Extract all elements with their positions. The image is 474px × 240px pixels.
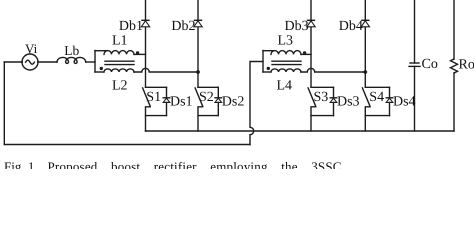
svg-text:S4: S4 [369, 90, 384, 105]
svg-text:Ds2: Ds2 [222, 95, 245, 110]
wire rail L2 to node b with hop over node a [134, 68, 198, 72]
node d vertical (Db4/S4) [364, 0, 366, 87]
polarity dot L3 [303, 51, 306, 54]
polarity dot L1 [136, 51, 139, 54]
node b vertical (Db2/S2) [197, 0, 199, 87]
diode Ds2 [217, 87, 219, 98]
diode Db2 [195, 19, 202, 21]
svg-text:Ds4: Ds4 [393, 95, 416, 110]
svg-text:Ds1: Ds1 [170, 95, 193, 110]
inductor L1 (coupled winding, cell 1) [95, 50, 107, 52]
capacitor Co [414, 0, 416, 63]
junction node d dot [363, 70, 367, 74]
switch S1 [146, 86, 167, 88]
svg-text:Ro: Ro [459, 58, 474, 73]
inductor Lb [57, 57, 86, 63]
svg-text:L2: L2 [112, 78, 128, 93]
core lines T2 [272, 60, 301, 62]
junction node b dot [196, 70, 200, 74]
wire cell2 input riser with hop over output rail [250, 62, 263, 145]
svg-text:L3: L3 [278, 33, 294, 48]
diode Ds4 [389, 87, 391, 98]
svg-text:Ds3: Ds3 [337, 95, 360, 110]
node cell2 input vertical [262, 51, 264, 73]
wire staple S1/Ds1 [146, 115, 167, 117]
svg-text:L4: L4 [277, 78, 293, 93]
inductor L3 (coupled winding, cell 2) [263, 50, 274, 52]
svg-text:Proposed boost rectifier emplo: Proposed boost rectifier employing the 3… [48, 159, 342, 169]
svg-text:S2: S2 [199, 90, 214, 105]
wire rail L4 to node d with hop over node c [301, 68, 365, 72]
wire Vi to Lb [38, 61, 57, 63]
svg-text:Db2: Db2 [171, 19, 195, 34]
switch S3 [311, 86, 334, 88]
svg-text:Db4: Db4 [339, 19, 363, 34]
svg-text:S3: S3 [314, 90, 329, 105]
inductor L2 (coupled winding, cell 1) [95, 71, 104, 73]
svg-text:Db1: Db1 [119, 19, 143, 34]
diode Ds1 [166, 87, 168, 98]
resistor Ro [453, 0, 455, 59]
core lines T1 [105, 60, 134, 62]
wire staple S3/Ds3 [311, 115, 334, 117]
AC source Vi [22, 54, 38, 70]
svg-text:Co: Co [422, 57, 438, 72]
polarity dot L4 [267, 67, 270, 70]
polarity dot L2 [100, 67, 103, 70]
inductor L4 (coupled winding, cell 2) [263, 71, 271, 73]
wire source return bottom [4, 144, 250, 146]
svg-text:S1: S1 [146, 90, 161, 105]
switch S2 [198, 86, 218, 88]
svg-text:Vi: Vi [25, 41, 38, 56]
node cell1 input vertical [94, 51, 96, 73]
node c vertical (Db3/S3) [310, 0, 312, 87]
diode Db1 [142, 19, 149, 21]
svg-text:Fig. 1.: Fig. 1. [4, 159, 38, 169]
svg-text:L1: L1 [112, 33, 128, 48]
wire Lb to cell1 [86, 61, 95, 63]
node a vertical (Db1/S1) [145, 0, 147, 87]
diode Db4 [362, 19, 369, 21]
wire staple S4/Ds4 [365, 115, 389, 117]
wire left source down-lead [3, 62, 5, 145]
wire staple S2/Ds2 [198, 115, 218, 117]
wire Vi to left lead [4, 61, 22, 63]
diode Db3 [308, 19, 315, 21]
wire output negative rail [146, 130, 455, 132]
svg-text:Lb: Lb [64, 43, 79, 58]
svg-text:Db3: Db3 [284, 19, 308, 34]
switch S4 [365, 86, 389, 88]
diode Ds3 [333, 87, 335, 98]
